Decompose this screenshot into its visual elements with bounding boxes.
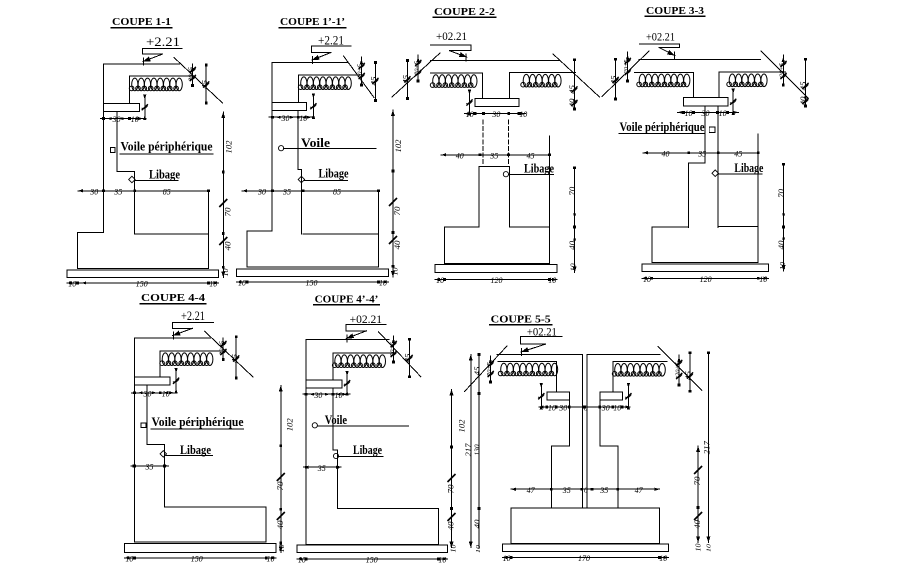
coupe 3-3 voile marker square: [709, 127, 715, 133]
coupe 3-3 dim 10-30-10: [678, 111, 739, 113]
coupe 5-5 level flag: [521, 336, 562, 338]
coupe 3-3 left beam height dim 45: [615, 59, 617, 99]
coupe 1'-1' ledge height dim: [312, 95, 314, 119]
coupe 3-3 top line: [639, 58, 761, 60]
svg-text:10: 10: [267, 554, 276, 564]
coupe 3-3 right tall dim: [783, 164, 785, 270]
svg-text:Libage: Libage: [319, 166, 349, 181]
svg-text:COUPE 3-3: COUPE 3-3: [646, 6, 704, 17]
svg-text:30: 30: [89, 186, 99, 196]
coupe 3-3 base slab: [642, 264, 769, 272]
svg-text:+2.21: +2.21: [146, 34, 180, 49]
svg-text:102: 102: [458, 420, 467, 433]
svg-text:10: 10: [392, 267, 400, 276]
coupe 2-2 pedestal outline: [479, 166, 510, 168]
svg-text:130: 130: [474, 444, 482, 456]
svg-text:Voile périphérique: Voile périphérique: [152, 414, 244, 429]
coupe 1-1 hourdis blocks: [129, 78, 182, 91]
coupe 4'-4' ledge rect: [306, 380, 342, 388]
coupe 5-5 base slab: [502, 544, 668, 552]
coupe 4-4 footing right face: [265, 507, 267, 542]
svg-text:30: 30: [112, 114, 122, 124]
svg-text:85: 85: [163, 186, 171, 196]
svg-text:10: 10: [548, 404, 556, 413]
svg-text:40: 40: [447, 522, 456, 531]
svg-text:150: 150: [136, 279, 149, 289]
coupe 2-2 left beam web: [482, 73, 484, 99]
coupe 3-3 beam bottom rect: [684, 98, 728, 106]
coupe 2-2 libage marker circle: [503, 172, 508, 177]
svg-text:85: 85: [333, 186, 341, 196]
coupe 5-5 left ledge height dim: [540, 384, 542, 409]
svg-text:10: 10: [548, 275, 557, 285]
coupe 4'-4' dim 30-10: [303, 393, 350, 395]
coupe 1-1 slab top line: [130, 75, 192, 77]
coupe 5-5 left top line: [497, 353, 582, 355]
svg-text:+2.21: +2.21: [318, 32, 344, 47]
svg-text:35: 35: [145, 462, 154, 472]
coupe 5-5 right top line: [587, 353, 660, 355]
coupe 4'-4' slab top line: [333, 352, 393, 354]
coupe 1-1 wall outer face: [102, 64, 104, 233]
coupe 3-3 mid dim 40-35-45: [643, 152, 758, 154]
coupe 4-4 wall inner face below ledge: [147, 385, 164, 507]
svg-text:35: 35: [489, 150, 498, 160]
coupe 2-2 leader diagonal right: [553, 54, 600, 97]
coupe 3-3 right slab top line: [719, 71, 785, 73]
coupe 1'-1' bottom dim 10-150-10: [237, 281, 389, 283]
coupe 2-2 right tall dim: [574, 168, 576, 273]
coupe 5-5 right slab top line: [613, 361, 667, 363]
svg-text:45: 45: [230, 354, 239, 363]
svg-text:70: 70: [276, 482, 285, 491]
svg-text:10: 10: [613, 404, 621, 413]
svg-text:Voile périphérique: Voile périphérique: [620, 120, 705, 134]
coupe 4-4 ledge height dim: [175, 369, 177, 393]
coupe 5-5 right ledge rect: [600, 392, 623, 400]
coupe 5-5 left wall below ledge: [551, 400, 569, 508]
svg-text:10: 10: [719, 108, 728, 118]
svg-text:35: 35: [562, 485, 571, 495]
svg-text:47: 47: [635, 485, 644, 495]
coupe 1'-1' wall inner face below ledge with notch: [298, 111, 301, 231]
svg-text:70: 70: [393, 207, 402, 216]
coupe 5-5 left wall slab-side face: [555, 362, 557, 392]
svg-text:10: 10: [685, 108, 694, 118]
svg-text:10: 10: [449, 544, 457, 553]
coupe 3-3 leader diagonal right: [761, 51, 808, 98]
coupe 4-4 voile marker square: [141, 423, 146, 428]
coupe 4'-4' leader diagonal: [378, 332, 420, 377]
coupe 5-5 left slab top line: [498, 361, 556, 363]
svg-text:30: 30: [601, 404, 610, 413]
coupe 5-5 left segmented dim line: [478, 354, 480, 547]
svg-text:45: 45: [569, 84, 577, 94]
coupe 1-1 wall top line: [103, 63, 179, 65]
coupe 1'-1' leader diagonal: [344, 56, 375, 98]
coupe 4-4 libage bottom line: [165, 506, 267, 508]
coupe 4'-4' bottom dim 10-150-10: [297, 558, 447, 560]
coupe 5-5 left hourdis blocks: [498, 363, 557, 376]
svg-text:40: 40: [800, 96, 808, 106]
coupe 1'-1' voile marker circle: [279, 146, 284, 151]
coupe 3-3 footing outline: [652, 134, 758, 262]
coupe 2-2 footing outline: [445, 136, 550, 263]
coupe 5-5 right wall slab-side face: [612, 362, 614, 392]
coupe 3-3 leader diagonal left: [602, 51, 649, 97]
coupe 1-1 base slab: [67, 270, 219, 278]
coupe 4'-4' hourdis blocks: [332, 355, 385, 368]
coupe 2-2 base slab: [435, 264, 557, 272]
svg-text:30: 30: [257, 186, 267, 196]
coupe 4-4 beam height dim 45: [235, 337, 237, 378]
svg-text:10: 10: [238, 278, 247, 288]
svg-text:70: 70: [693, 477, 702, 486]
coupe 2-2 left slab thickness dim 20+5: [417, 55, 419, 81]
coupe 2-2 left slab top line: [430, 72, 482, 74]
svg-text:10: 10: [759, 274, 768, 284]
svg-text:COUPE 2-2: COUPE 2-2: [434, 7, 495, 18]
svg-text:45: 45: [527, 150, 535, 160]
svg-text:150: 150: [366, 555, 379, 565]
coupe 4-4 base slab: [124, 544, 276, 553]
coupe 1'-1' base slab: [237, 269, 389, 277]
coupe 4'-4' ledge height dim: [346, 372, 348, 394]
svg-text:Libage: Libage: [180, 442, 211, 457]
coupe 4-4 dim 35: [131, 465, 168, 467]
svg-text:30: 30: [281, 113, 291, 123]
svg-text:70: 70: [447, 485, 456, 494]
coupe 1-1 wall inner face upper: [129, 76, 131, 103]
coupe 5-5 right ledge height dim: [627, 384, 629, 409]
svg-text:40: 40: [662, 148, 671, 158]
coupe 4'-4' wall inner face upper: [332, 353, 334, 380]
coupe 1-1 footing outline: [77, 191, 208, 269]
coupe 5-5 right beam height dim 45: [689, 353, 691, 392]
svg-text:150: 150: [306, 278, 319, 288]
svg-text:40: 40: [569, 98, 577, 108]
coupe 2-2 libage bottom step: [510, 226, 550, 228]
svg-text:40: 40: [456, 150, 465, 160]
svg-text:10: 10: [209, 279, 218, 289]
svg-text:10: 10: [162, 388, 171, 398]
coupe 1-1 bottom dim 10-150-10: [67, 282, 219, 284]
svg-text:70: 70: [568, 187, 577, 196]
coupe 3-3 libage marker diamond: [712, 170, 719, 177]
svg-text:30: 30: [313, 390, 323, 400]
svg-text:217: 217: [703, 440, 712, 454]
svg-text:102: 102: [225, 141, 234, 154]
svg-text:45: 45: [734, 148, 742, 158]
svg-text:10: 10: [131, 114, 140, 124]
coupe 2-2 right hourdis blocks: [521, 74, 561, 87]
coupe 1'-1' wall inner face upper: [297, 75, 299, 103]
svg-text:10: 10: [519, 109, 528, 119]
coupe 5-5 mid dim 47-35-35-47: [511, 488, 659, 490]
coupe 1-1 ledge rect: [103, 103, 139, 111]
svg-text:10: 10: [379, 278, 388, 288]
svg-text:45: 45: [800, 81, 808, 91]
svg-text:10: 10: [779, 261, 787, 270]
coupe 4-4 footing bottom: [134, 541, 266, 543]
coupe 5-5 joint dim: [574, 406, 594, 408]
svg-text:10: 10: [643, 274, 652, 284]
svg-text:Libage: Libage: [353, 442, 382, 457]
svg-text:10: 10: [298, 555, 307, 565]
coupe 5-5 right wall below ledge: [600, 400, 618, 508]
coupe 4'-4' slab thickness dim 20+5: [393, 336, 395, 362]
coupe 4-4 right tall dim: [280, 385, 282, 552]
coupe 1-1 slab thickness dim 20+5: [192, 64, 194, 85]
svg-text:10: 10: [436, 275, 445, 285]
svg-text:45: 45: [200, 80, 209, 89]
svg-text:COUPE 4-4: COUPE 4-4: [141, 293, 205, 304]
svg-text:COUPE 4’-4’: COUPE 4’-4’: [315, 294, 379, 305]
coupe 4'-4' libage bottom line: [337, 508, 438, 510]
svg-text:20+5: 20+5: [486, 361, 493, 376]
svg-text:47: 47: [527, 485, 536, 495]
coupe 5-5 bottom dim 10-170-10: [502, 557, 668, 559]
coupe 1'-1' wall top line: [272, 62, 348, 64]
svg-text:30: 30: [491, 109, 501, 119]
coupe 2-2 left hourdis blocks: [430, 75, 477, 88]
coupe 3-3 step to pedestal: [689, 163, 705, 227]
coupe 4'-4' wall top line: [306, 339, 389, 341]
svg-text:20+5: 20+5: [413, 60, 420, 75]
svg-text:40: 40: [568, 241, 577, 250]
coupe 4'-4' right tall dim: [451, 389, 453, 547]
svg-text:40: 40: [393, 241, 402, 250]
coupe 1-1 wall inner face below ledge: [117, 111, 135, 233]
coupe 4'-4' footing bottom: [306, 544, 439, 546]
svg-text:40: 40: [777, 241, 786, 250]
coupe 3-3 right beam web: [718, 72, 720, 98]
svg-text:0: 0: [584, 404, 588, 413]
svg-text:COUPE 1’-1’: COUPE 1’-1’: [280, 17, 345, 28]
coupe 3-3 libage bottom step: [718, 226, 758, 228]
coupe 1'-1' hourdis blocks: [298, 77, 351, 90]
coupe 4'-4' libage marker circle: [333, 453, 338, 458]
coupe 1-1 right tall dim: [222, 112, 224, 278]
coupe 4'-4' base slab: [297, 545, 447, 553]
coupe 2-2 left beam height dim 45: [406, 61, 408, 99]
coupe 5-5 right slab thickness dim 20+5: [678, 355, 680, 385]
coupe 2-2 right beam dims 45-40: [573, 60, 575, 109]
coupe 5-5 right hourdis blocks: [612, 364, 665, 377]
coupe 5-5 right tall dim 70-40-10: [697, 446, 699, 543]
coupe 1'-1' ledge rect: [272, 102, 307, 110]
coupe 5-5 left dim 217 line: [470, 354, 472, 547]
coupe 3-3 ledge height dim right: [732, 90, 734, 115]
coupe 1-1 level flag: [142, 48, 181, 50]
coupe 2-2 dim 10-30-10: [465, 113, 526, 115]
coupe 1-1 voile marker square: [111, 148, 116, 153]
svg-text:10: 10: [695, 543, 703, 552]
coupe 2-2 mid dim 40-35-45: [441, 154, 549, 156]
coupe 5-5 leader diagonal left: [465, 346, 508, 392]
svg-text:35: 35: [599, 485, 608, 495]
coupe 5-5 right dim 217 line: [707, 353, 709, 543]
coupe 4-4 wall outer face: [133, 338, 135, 542]
svg-text:30: 30: [558, 404, 567, 413]
svg-text:35: 35: [697, 148, 706, 158]
svg-text:10: 10: [68, 279, 77, 289]
svg-text:170: 170: [578, 553, 591, 563]
svg-text:10: 10: [278, 544, 286, 553]
coupe 1'-1' beam height dim 45: [374, 63, 376, 101]
svg-text:Voile périphérique: Voile périphérique: [121, 138, 213, 153]
coupe 5-5 right dim 30-10: [591, 406, 630, 408]
coupe 3-3 right hourdis blocks: [727, 74, 767, 87]
svg-text:10: 10: [466, 109, 475, 119]
svg-text:COUPE 5-5: COUPE 5-5: [491, 314, 551, 325]
coupe 4'-4' wall outer face: [305, 340, 307, 545]
svg-text:+02.21: +02.21: [646, 31, 675, 43]
svg-text:Libage: Libage: [149, 167, 180, 182]
coupe 1'-1' footing outline: [247, 191, 378, 267]
coupe 5-5 leader diagonal right: [658, 347, 702, 391]
coupe 5-5 left ledge rect: [547, 392, 570, 400]
svg-text:0: 0: [584, 486, 588, 495]
coupe 2-2 beam bottom rect: [475, 99, 519, 107]
coupe 1-1 leader diagonal: [174, 58, 223, 104]
coupe 5-5 left dim 10-30: [539, 406, 578, 408]
coupe 4'-4' voile marker circle: [312, 423, 317, 428]
coupe 1'-1' right tall dim: [392, 110, 394, 277]
svg-text:70: 70: [223, 208, 232, 217]
svg-text:102: 102: [286, 418, 295, 431]
svg-text:35: 35: [282, 186, 291, 196]
svg-text:10: 10: [659, 553, 668, 563]
coupe 4-4 wall top line: [134, 337, 210, 339]
coupe 3-3 left hourdis blocks: [637, 74, 690, 87]
coupe 1'-1' slab top line: [298, 74, 360, 76]
coupe 4-4 bottom dim 10-150-10: [125, 557, 276, 559]
svg-text:10: 10: [570, 263, 578, 272]
svg-text:40: 40: [474, 519, 482, 529]
coupe 3-3 level flag mirrored: [639, 43, 679, 45]
coupe 3-3 left slab top line: [635, 71, 694, 73]
coupe 4-4 wall inner face upper: [159, 351, 161, 377]
coupe 1-1 libage bottom line: [135, 233, 209, 235]
svg-text:COUPE 1-1: COUPE 1-1: [112, 17, 171, 28]
coupe 3-3 left beam web: [692, 72, 694, 97]
coupe 4-4 libage marker diamond: [160, 451, 167, 458]
coupe 4-4 dim 30-10: [132, 392, 178, 394]
coupe 4-4 slab top line: [160, 350, 223, 352]
coupe 1'-1' wall outer face: [271, 63, 273, 231]
coupe 1'-1' libage marker diamond: [298, 176, 305, 183]
coupe 4-4 hourdis blocks: [160, 353, 213, 366]
coupe 4'-4' level flag: [346, 324, 386, 326]
svg-text:40: 40: [223, 242, 232, 251]
coupe 3-3 wall faces below beam: [704, 106, 706, 163]
coupe 1-1 dim 30-10: [101, 118, 147, 120]
svg-text:10: 10: [438, 555, 447, 565]
coupe 2-2 right slab top line: [510, 72, 576, 74]
coupe 5-5 footing outline: [511, 507, 659, 509]
svg-text:+2.21: +2.21: [181, 309, 205, 323]
coupe 1-1 beam height dim 45: [205, 65, 207, 103]
coupe 4-4 slab thickness dim 20+5: [222, 338, 224, 359]
svg-text:35: 35: [317, 463, 326, 473]
svg-text:20+5: 20+5: [623, 59, 630, 74]
coupe 1-1 libage marker diamond: [129, 176, 136, 183]
svg-text:10: 10: [475, 544, 482, 553]
coupe 1'-1' slab thickness dim 20+5: [360, 57, 362, 85]
svg-text:+02.21: +02.21: [350, 314, 383, 326]
coupe 1-1 main dim 30-35-85: [78, 190, 209, 192]
svg-text:120: 120: [700, 274, 713, 284]
coupe 1'-1' main dim 30-35-85: [242, 190, 378, 192]
svg-text:40: 40: [276, 521, 285, 530]
coupe 2-2 bottom dim 10-120-10: [435, 279, 557, 281]
coupe 4'-4' footing right face: [438, 509, 440, 545]
coupe 3-3 left slab thickness dim 20+5: [627, 52, 629, 81]
coupe 2-2 leader diagonal left: [392, 53, 440, 97]
svg-text:102: 102: [394, 140, 403, 153]
coupe 4-4 leader diagonal: [205, 331, 253, 377]
coupe 4-4 level flag: [172, 321, 213, 323]
coupe 5-5 left slab thickness dim 20+5: [490, 356, 492, 382]
svg-text:70: 70: [777, 189, 786, 198]
coupe 2-2 hidden beam webs dashed: [482, 120, 484, 165]
svg-text:10: 10: [705, 543, 712, 552]
coupe 4-4 ledge rect: [134, 377, 170, 385]
svg-text:Voile: Voile: [325, 412, 348, 427]
svg-text:Libage: Libage: [734, 160, 763, 175]
coupe 4'-4' dim 35: [304, 466, 342, 468]
svg-text:10: 10: [503, 553, 512, 563]
coupe 1-1 ledge height dim: [144, 96, 146, 120]
coupe 4'-4' wall inner face below ledge with notch: [333, 388, 338, 509]
svg-text:35: 35: [113, 186, 122, 196]
svg-text:45: 45: [683, 371, 692, 380]
svg-text:45: 45: [369, 76, 378, 85]
coupe 2-2 right beam web: [509, 73, 511, 99]
svg-text:+02.21: +02.21: [436, 31, 467, 43]
coupe 2-2 ledge height dim left: [469, 91, 471, 115]
coupe 3-3 right beam dims 45-40: [805, 59, 807, 106]
svg-text:120: 120: [491, 275, 504, 285]
coupe 1'-1' level flag: [312, 45, 352, 47]
svg-text:10: 10: [299, 113, 308, 123]
coupe 2-2 top line: [430, 60, 559, 62]
svg-text:10: 10: [222, 268, 230, 277]
svg-text:40: 40: [693, 520, 702, 529]
coupe 3-3 bottom dim 10-120-10: [642, 277, 768, 279]
coupe 5-5 joint faces: [581, 354, 583, 508]
svg-text:45: 45: [403, 353, 412, 362]
svg-text:10: 10: [125, 554, 134, 564]
svg-text:10: 10: [335, 390, 344, 400]
svg-text:217: 217: [464, 442, 473, 456]
coupe 2-2 level flag mirrored: [430, 44, 471, 46]
coupe 1'-1' libage bottom line: [303, 233, 378, 235]
coupe 3-3 right slab thickness dim 20+5: [782, 55, 784, 85]
coupe 1'-1' dim 30-10: [269, 116, 315, 118]
coupe 4'-4' beam height dim 45: [409, 339, 411, 377]
svg-text:150: 150: [191, 554, 204, 564]
